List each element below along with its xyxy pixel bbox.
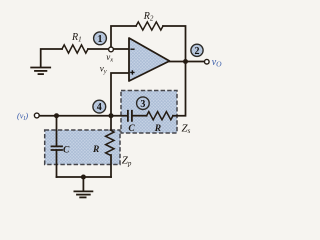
svg-text:2: 2: [195, 46, 200, 57]
svg-text:R: R: [154, 124, 161, 134]
svg-text:4: 4: [97, 102, 102, 113]
svg-text:1: 1: [98, 34, 103, 45]
svg-text:3: 3: [140, 99, 145, 110]
svg-text:(vI): (vI): [17, 112, 28, 122]
svg-text:R: R: [92, 145, 99, 155]
svg-text:C: C: [63, 146, 70, 156]
svg-text:C: C: [128, 124, 135, 134]
